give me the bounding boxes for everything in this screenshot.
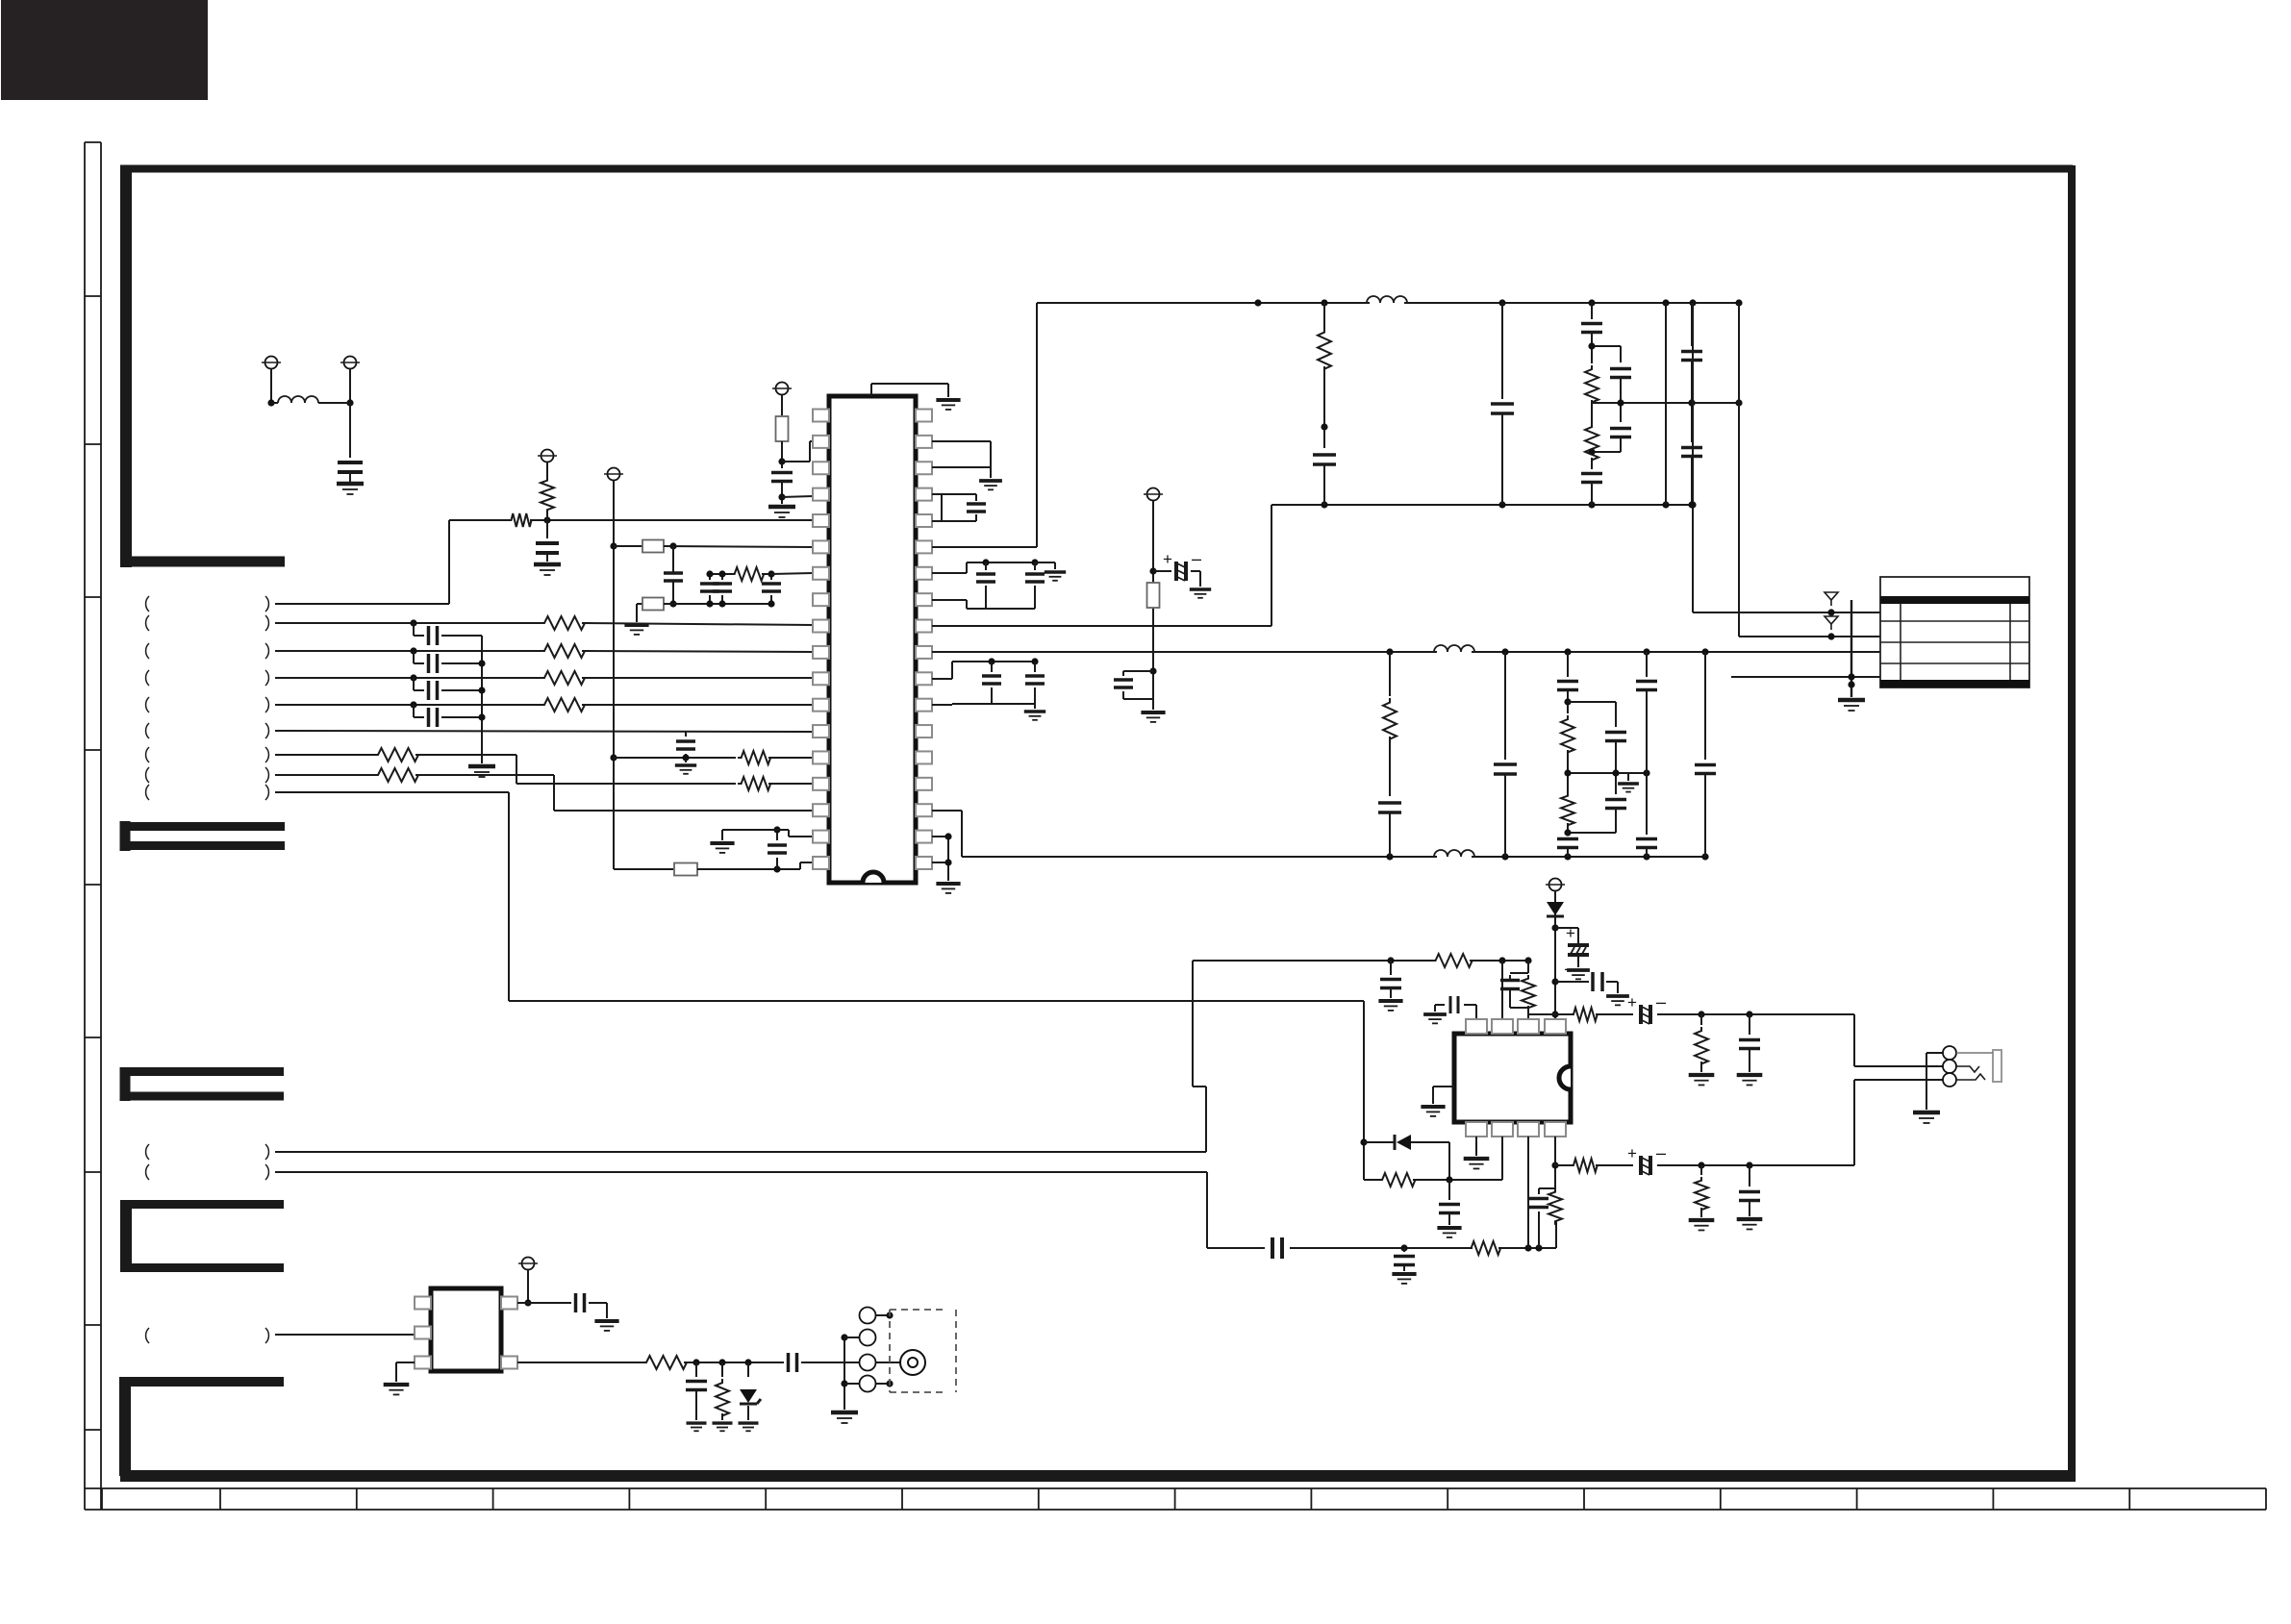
- svg-text:+: +: [1627, 993, 1637, 1012]
- svg-text:–: –: [1656, 992, 1666, 1012]
- svg-text:–: –: [1192, 549, 1201, 568]
- svg-text:+: +: [1163, 550, 1172, 568]
- svg-text:+: +: [1566, 924, 1575, 942]
- svg-text:–: –: [1656, 1143, 1666, 1162]
- svg-text:+: +: [1627, 1144, 1637, 1162]
